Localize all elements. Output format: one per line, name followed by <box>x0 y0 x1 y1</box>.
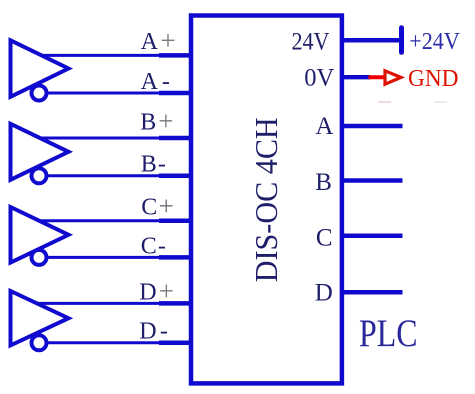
svg-text:A: A <box>141 69 159 95</box>
svg-text:DIS-OC 4CH: DIS-OC 4CH <box>249 117 284 282</box>
svg-text:-: - <box>162 69 170 95</box>
GND arrow <box>385 71 401 84</box>
pin A+ stub <box>159 53 192 58</box>
svg-text:A: A <box>315 113 333 140</box>
pin 24V wire <box>342 38 402 43</box>
pin C+ stub <box>159 218 192 223</box>
svg-text:24V: 24V <box>292 29 330 56</box>
pin B+ stub <box>159 136 192 141</box>
wire C+ <box>39 219 161 222</box>
pin C wire <box>342 234 403 239</box>
svg-text:B: B <box>315 169 332 196</box>
wire D- <box>46 341 161 344</box>
svg-text:-: - <box>158 151 166 177</box>
line driver U2 (channel B) <box>11 124 69 180</box>
line driver U3 (channel C) <box>11 207 69 263</box>
inverting bubble U1 <box>32 86 47 101</box>
wire B- <box>46 174 161 177</box>
pin B wire <box>342 178 403 183</box>
GND lead (red) <box>369 75 386 79</box>
svg-text:-: - <box>158 233 166 259</box>
wire B+ <box>40 137 161 140</box>
+24V supply terminal bar <box>399 28 404 53</box>
svg-text:+: + <box>160 26 175 56</box>
svg-text:PLC: PLC <box>359 312 418 355</box>
pin D wire <box>342 290 403 295</box>
pin D- stub <box>159 341 192 346</box>
wire D+ <box>37 302 161 305</box>
svg-text:C: C <box>141 233 157 259</box>
artifact dash 2 <box>434 101 447 103</box>
svg-text:D: D <box>139 280 156 306</box>
wire C- <box>46 256 161 259</box>
pin A wire <box>342 124 403 129</box>
wire A+ <box>42 54 161 57</box>
svg-text:C: C <box>141 194 157 220</box>
pin 0V wire <box>342 75 371 79</box>
pin B- stub <box>159 174 192 179</box>
inverting bubble U4 <box>32 335 47 350</box>
pin A- stub <box>159 91 192 96</box>
svg-text:A: A <box>141 29 159 55</box>
svg-text:D: D <box>315 279 333 306</box>
artifact dash 1 <box>378 101 391 103</box>
svg-text:+24V: +24V <box>409 29 460 55</box>
svg-text:GND: GND <box>408 66 459 92</box>
inverting bubble U3 <box>32 250 47 265</box>
line driver U4 (channel D) <box>11 291 69 345</box>
inverting bubble U2 <box>32 168 47 183</box>
pin C- stub <box>159 255 192 260</box>
svg-text:-: - <box>160 319 168 345</box>
svg-text:0V: 0V <box>304 65 334 92</box>
svg-text:B: B <box>141 151 157 177</box>
svg-text:D: D <box>139 319 156 345</box>
module U5 DIS-OC 4CH box <box>191 16 342 384</box>
svg-text:+: + <box>159 276 174 306</box>
svg-text:+: + <box>158 106 173 136</box>
line driver U1 (channel A) <box>11 40 69 97</box>
svg-text:C: C <box>316 224 333 251</box>
svg-text:B: B <box>140 110 156 136</box>
svg-text:+: + <box>159 191 174 221</box>
wire A- <box>46 92 161 95</box>
pin D+ stub <box>159 301 192 306</box>
